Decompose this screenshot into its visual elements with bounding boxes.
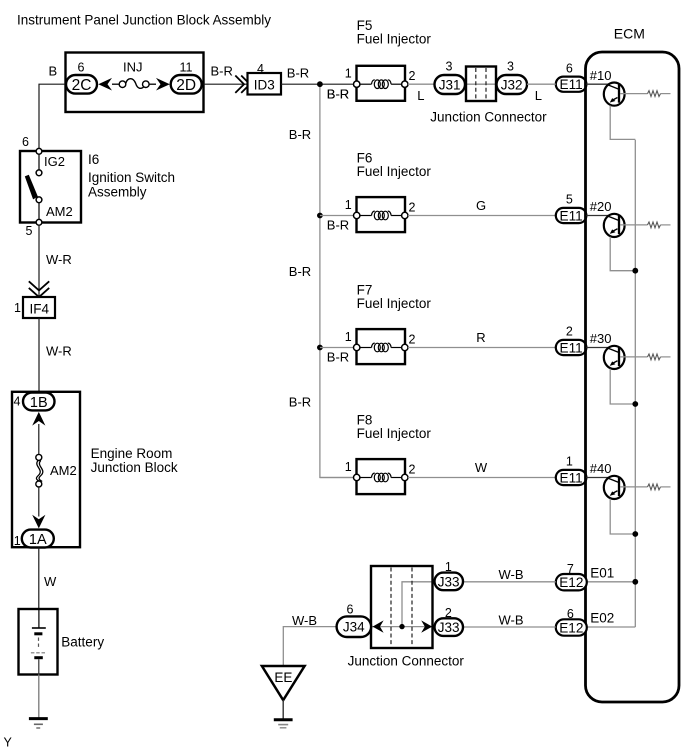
wire B-R stub (trunk to injector F7) <box>320 347 357 349</box>
svg-text:#30: #30 <box>590 331 612 346</box>
junction connector box (J31/J32) <box>466 83 496 85</box>
svg-text:2: 2 <box>409 69 416 83</box>
connector E11 pin 6 (row 1) <box>556 77 587 92</box>
svg-text:E12: E12 <box>559 575 583 590</box>
svg-text:6: 6 <box>78 61 85 75</box>
wire E01 to ground bus <box>587 581 636 583</box>
wire L (J32 to E11) <box>527 83 556 85</box>
svg-text:#10: #10 <box>590 68 612 83</box>
connector 1B pin 4 <box>23 393 55 411</box>
injector F5 pin 1 terminal <box>354 81 360 87</box>
transistor #20 (injector driver) <box>607 216 618 221</box>
B-R trunk wire (vertical distribution) <box>320 84 357 477</box>
injector F8 pin 2 terminal <box>402 474 408 480</box>
junction node row3 <box>317 345 323 351</box>
wire W-R (IF4 to 1B) <box>38 318 40 392</box>
fuel injector F5 box <box>357 66 406 101</box>
svg-text:J33: J33 <box>438 620 460 635</box>
svg-text:L: L <box>417 88 424 103</box>
svg-text:6: 6 <box>566 61 573 75</box>
svg-text:B: B <box>49 64 58 79</box>
svg-text:Fuel Injector: Fuel Injector <box>357 296 432 311</box>
svg-text:Junction Connector: Junction Connector <box>430 109 547 124</box>
svg-text:J34: J34 <box>343 620 365 635</box>
svg-text:E12: E12 <box>559 620 583 635</box>
wire to fusible link <box>38 424 40 455</box>
transistor #10 (injector driver) <box>607 85 618 90</box>
wire W-B (J33 pin1 to E12 pin7) <box>463 581 556 583</box>
connector 2D pin 11 <box>171 75 202 94</box>
svg-text:2: 2 <box>409 333 416 347</box>
svg-text:J33: J33 <box>438 574 460 589</box>
svg-text:J31: J31 <box>439 78 461 93</box>
svg-text:AM2: AM2 <box>46 204 73 219</box>
fuel injector F7 box <box>357 329 406 364</box>
emitter wire #30 to ground bus <box>610 369 635 404</box>
wire G (injector F6 to ECM) <box>408 215 556 217</box>
ECM box <box>586 52 680 702</box>
wire B-R stub (trunk to injector F6) <box>320 215 357 217</box>
svg-text:2C: 2C <box>72 77 92 94</box>
collector wire + resistor (#10) <box>620 93 648 95</box>
wire E02 to ground bus <box>587 626 636 628</box>
svg-text:Junction Block: Junction Block <box>91 460 178 475</box>
connector J33 pin 2 <box>435 618 464 636</box>
svg-text:2: 2 <box>445 606 452 620</box>
svg-text:1: 1 <box>14 534 21 548</box>
svg-text:B-R: B-R <box>289 127 311 142</box>
chevron splice (double arrow) <box>235 76 250 93</box>
injector F7 pin 2 terminal <box>402 344 408 350</box>
svg-text:6: 6 <box>347 603 354 617</box>
connector E11 pin 1 (row 4) <box>556 470 587 485</box>
svg-text:#40: #40 <box>590 461 612 476</box>
engine room junction block box <box>12 392 80 547</box>
svg-text:W-B: W-B <box>499 613 524 628</box>
svg-text:G: G <box>476 198 486 213</box>
wire L (injector F5 to J31) <box>408 83 435 85</box>
wire E11 to transistor #30 <box>586 347 608 349</box>
junction node (emitter bus row 4) <box>632 531 638 537</box>
wire E11 to transistor #20 <box>586 215 608 217</box>
connector ID3 pin 4 <box>248 73 282 95</box>
svg-text:ECM: ECM <box>614 26 645 42</box>
svg-text:E11: E11 <box>560 208 583 223</box>
wire battery to ground <box>38 675 40 719</box>
ground (EE) <box>274 718 293 721</box>
connector 2C pin 6 <box>66 75 97 94</box>
svg-text:2: 2 <box>409 463 416 477</box>
wire B-R stub (trunk to injector F8) <box>320 477 357 479</box>
junction node row2 <box>317 213 323 219</box>
svg-text:R: R <box>476 330 485 345</box>
collector wire + resistor (#30) <box>620 356 648 358</box>
wire to 1A <box>38 487 40 517</box>
svg-text:1: 1 <box>345 330 352 344</box>
wire B (2C to ignition switch) <box>39 84 66 148</box>
svg-text:EE: EE <box>274 670 292 685</box>
wire W-B (EE to J34) <box>283 627 336 666</box>
svg-text:1B: 1B <box>30 395 48 411</box>
svg-text:L: L <box>535 88 542 103</box>
svg-text:1: 1 <box>445 560 452 574</box>
svg-text:INJ: INJ <box>123 60 143 75</box>
svg-text:5: 5 <box>566 193 573 207</box>
connector E11 pin 2 (row 3) <box>556 340 587 355</box>
svg-text:W: W <box>44 574 57 589</box>
arrowhead into 2C <box>98 78 112 91</box>
svg-text:5: 5 <box>26 224 33 238</box>
svg-text:4: 4 <box>14 395 21 409</box>
chevron splice (down) <box>29 281 49 297</box>
battery box <box>19 609 58 675</box>
ground point EE <box>262 666 305 700</box>
connector J31 pin 3 <box>435 75 466 94</box>
wire B-R (ID3 to junction node) <box>281 83 357 85</box>
svg-text:Battery: Battery <box>61 635 104 650</box>
svg-text:E11: E11 <box>560 470 583 485</box>
connector IF4 pin 1 <box>23 297 55 318</box>
svg-text:1: 1 <box>345 460 352 474</box>
injector F7 pin 1 terminal <box>354 344 360 350</box>
connector E12 pin 6 <box>556 619 587 635</box>
svg-text:2: 2 <box>409 201 416 215</box>
svg-text:I6: I6 <box>88 152 99 167</box>
instrument panel junction block box <box>66 53 204 113</box>
fusible link AM2 <box>36 454 42 460</box>
svg-text:Assembly: Assembly <box>88 185 147 200</box>
wire W-R (switch to IF4) <box>38 225 40 297</box>
battery cell symbol <box>38 609 40 628</box>
svg-text:7: 7 <box>567 562 574 576</box>
injector F5 coil <box>360 83 372 85</box>
injector F8 coil <box>360 477 372 479</box>
arrowhead into J33 pin2 <box>421 620 432 632</box>
wire B-R (2D to ID3) <box>204 83 248 85</box>
wire E11 to transistor #10 <box>586 83 608 85</box>
wire E11 to transistor #40 <box>586 477 608 479</box>
connector J34 pin 6 <box>337 616 372 637</box>
svg-text:Junction Connector: Junction Connector <box>348 654 465 669</box>
connector J32 pin 3 <box>497 75 528 94</box>
ground (battery) <box>29 717 48 720</box>
svg-text:1A: 1A <box>29 532 47 548</box>
svg-text:E02: E02 <box>590 611 614 626</box>
svg-text:IG2: IG2 <box>44 154 65 169</box>
svg-text:2: 2 <box>566 325 573 339</box>
svg-text:11: 11 <box>180 61 193 75</box>
arrowhead into J34 <box>373 620 384 632</box>
switch internal wires <box>38 151 40 170</box>
svg-text:1: 1 <box>566 455 573 469</box>
junction node (emitter bus row 3) <box>632 401 638 407</box>
svg-text:3: 3 <box>507 60 514 74</box>
wire R (injector F7 to ECM) <box>408 347 556 349</box>
svg-text:Fuel Injector: Fuel Injector <box>357 32 432 47</box>
emitter wire #20 to ground bus <box>610 237 635 271</box>
svg-text:E11: E11 <box>560 340 583 355</box>
svg-text:W-B: W-B <box>292 613 317 628</box>
switch lever <box>25 175 38 200</box>
svg-text:6: 6 <box>22 135 29 149</box>
emitter wire #40 to ground bus <box>610 499 635 534</box>
svg-text:B-R: B-R <box>211 63 233 78</box>
svg-text:Engine Room: Engine Room <box>91 446 173 461</box>
svg-text:B-R: B-R <box>287 66 309 81</box>
svg-text:2D: 2D <box>176 77 196 94</box>
svg-text:E01: E01 <box>590 566 614 581</box>
svg-text:4: 4 <box>257 62 264 76</box>
svg-text:B-R: B-R <box>289 264 311 279</box>
junction node E01 <box>632 579 638 585</box>
svg-text:B-R: B-R <box>327 350 349 365</box>
svg-text:W-B: W-B <box>499 567 524 582</box>
ignition switch I6 box <box>20 151 81 223</box>
svg-text:W-R: W-R <box>46 343 72 358</box>
junction node (inside junction connector) <box>399 624 404 629</box>
svg-text:#20: #20 <box>590 199 612 214</box>
svg-text:AM2: AM2 <box>50 463 77 478</box>
junction connector box (J33/J34) internal wires <box>371 626 435 628</box>
svg-text:IF4: IF4 <box>30 301 50 316</box>
wire W (injector F8 to ECM) <box>408 477 556 479</box>
transistor #30 (injector driver) <box>607 348 618 353</box>
transistor #40 (injector driver) <box>607 478 618 483</box>
fuse INJ element <box>112 83 119 85</box>
injector F6 coil <box>360 215 372 217</box>
emitter wire #10 to ground bus <box>610 106 635 140</box>
connector J33 pin 1 <box>435 573 464 591</box>
injector F6 pin 2 terminal <box>402 212 408 218</box>
svg-text:1: 1 <box>345 67 352 81</box>
svg-text:E11: E11 <box>560 77 583 92</box>
svg-text:1: 1 <box>345 198 352 212</box>
svg-text:J32: J32 <box>501 78 523 93</box>
injector F6 pin 1 terminal <box>354 212 360 218</box>
svg-text:3: 3 <box>446 60 453 74</box>
wire W (1A to battery) <box>38 548 40 610</box>
injector F7 coil <box>360 347 372 349</box>
svg-text:B-R: B-R <box>289 395 311 410</box>
svg-text:1: 1 <box>14 301 21 315</box>
junction connector box (J33/J34) <box>371 566 433 648</box>
svg-text:W-R: W-R <box>46 252 72 267</box>
switch contact terminals <box>36 148 42 154</box>
arrowhead into 2D <box>156 78 170 91</box>
connector 1A pin 1 <box>22 530 54 548</box>
ECM internal ground bus wire <box>634 140 636 627</box>
fuel injector F6 box <box>357 197 406 232</box>
arrowhead down (to 1A) <box>32 515 45 529</box>
arrowhead up (to 1B) <box>32 412 45 426</box>
injector F8 pin 1 terminal <box>354 474 360 480</box>
collector wire + resistor (#20) <box>620 224 648 226</box>
collector wire + resistor (#40) <box>620 486 648 488</box>
svg-text:6: 6 <box>567 607 574 621</box>
svg-text:Fuel Injector: Fuel Injector <box>357 164 432 179</box>
connector E11 pin 5 (row 2) <box>556 208 587 223</box>
svg-text:W: W <box>475 460 488 475</box>
wire W-B (J33 pin2 to E12 pin6) <box>463 626 556 628</box>
injector F5 pin 2 terminal <box>402 81 408 87</box>
svg-text:Instrument Panel Junction Bloc: Instrument Panel Junction Block Assembly <box>17 12 271 28</box>
svg-text:B-R: B-R <box>327 218 349 233</box>
svg-text:Y: Y <box>4 736 13 749</box>
svg-text:B-R: B-R <box>327 86 349 101</box>
wire EE to ground <box>282 700 284 719</box>
svg-text:ID3: ID3 <box>254 78 275 93</box>
fuel injector F8 box <box>357 459 406 494</box>
svg-text:Fuel Injector: Fuel Injector <box>357 426 432 441</box>
junction node (emitter bus row 2) <box>632 268 638 274</box>
junction node row1 <box>317 81 323 87</box>
svg-text:Ignition Switch: Ignition Switch <box>88 170 175 185</box>
connector E12 pin 7 <box>556 574 587 590</box>
